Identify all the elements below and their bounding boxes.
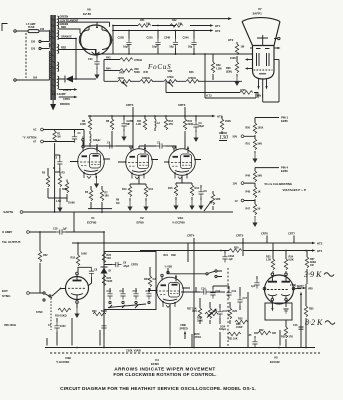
potentiometer VR3 <box>204 191 221 211</box>
sync switch dashes <box>50 295 52 330</box>
input terminal lo <box>33 140 75 143</box>
svg-text:CRT3: CRT3 <box>126 103 134 107</box>
CRT left pins <box>245 48 253 70</box>
potentiometer VR2 <box>118 72 131 87</box>
svg-text:C24B: C24B <box>164 37 170 40</box>
svg-text:EZ80: EZ80 <box>281 119 288 123</box>
svg-text:+CRT1: +CRT1 <box>63 88 72 92</box>
svg-text:56K: 56K <box>258 142 263 145</box>
tap 50V <box>233 135 256 139</box>
capacitor C13 <box>146 288 152 300</box>
diode D1 <box>101 267 112 274</box>
resistor R31 <box>228 332 241 340</box>
resistor R40 1W <box>230 42 245 62</box>
tap 230 <box>31 40 46 43</box>
svg-text:1V: 1V <box>235 199 238 203</box>
svg-text:240: 240 <box>40 28 45 31</box>
svg-text:R49: R49 <box>246 174 251 177</box>
bottom common rail <box>45 347 315 349</box>
svg-text:16µF: 16µF <box>152 46 158 49</box>
svg-text:AC: AC <box>33 129 37 132</box>
svg-text:C19: C19 <box>232 290 237 293</box>
V1 cathode network grounds <box>48 198 67 212</box>
tube V4 <box>148 268 190 330</box>
svg-text:.05µF: .05µF <box>123 265 130 268</box>
capacitor C11 <box>120 288 126 300</box>
resistor R47 <box>246 201 261 215</box>
svg-text:VR9: VR9 <box>168 70 173 73</box>
tap 10V <box>233 181 256 185</box>
svg-text:1.5K: 1.5K <box>56 200 61 203</box>
cap row C16/C19 beside C14 <box>210 286 220 299</box>
resistor R33 <box>281 320 293 348</box>
resistor R52 <box>38 232 48 293</box>
svg-text:VR3: VR3 <box>216 198 221 201</box>
CRT accel electrodes <box>256 48 270 50</box>
svg-text:17K: 17K <box>289 336 294 339</box>
svg-text:DI: DI <box>109 270 112 273</box>
svg-text:R12: R12 <box>149 188 154 191</box>
resistor R39 <box>211 54 221 80</box>
resistor R30b <box>236 323 243 329</box>
capacitor C16b <box>293 324 304 329</box>
svg-text:220K: 220K <box>188 123 194 126</box>
resistor R30 <box>235 318 248 324</box>
resistor R20 <box>92 310 107 316</box>
CRT5 drop <box>236 234 244 256</box>
svg-text:1K: 1K <box>258 190 261 193</box>
svg-text:V1: V1 <box>91 216 95 220</box>
svg-text:C16: C16 <box>293 324 298 327</box>
resistor 470K <box>240 89 253 94</box>
svg-text:C16: C16 <box>216 290 221 293</box>
resistor R49 <box>220 116 231 134</box>
6.3V filament wire with arrow <box>59 20 110 27</box>
capacitor C17 <box>237 292 247 310</box>
sync selector contacts <box>169 270 222 278</box>
svg-text:CRT4: CRT4 <box>187 234 195 238</box>
resistor R25 <box>208 302 217 324</box>
tube V5 ECC82 <box>263 273 304 304</box>
svg-text:6.8K: 6.8K <box>289 259 294 262</box>
svg-text:R10: R10 <box>122 188 127 191</box>
svg-text:100K: 100K <box>81 252 87 255</box>
svg-text:VR5: VR5 <box>308 287 313 290</box>
svg-text:R35: R35 <box>309 308 314 311</box>
svg-text:R30: R30 <box>238 318 243 321</box>
svg-text:C2/DI. V3A/B: C2/DI. V3A/B <box>126 350 141 353</box>
svg-text:HT2: HT2 <box>228 38 234 42</box>
svg-text:SYNC.: SYNC. <box>2 294 11 298</box>
svg-text:T.B. OUTPUT.: T.B. OUTPUT. <box>2 240 21 244</box>
V3B grid wire <box>52 288 66 296</box>
rectifier diode MR1 <box>59 76 96 83</box>
svg-text:100K: 100K <box>80 123 86 126</box>
resistor R44 <box>104 68 140 74</box>
ground V3B cathode <box>74 308 79 318</box>
svg-text:56K: 56K <box>258 174 263 177</box>
svg-text:R41: R41 <box>140 19 145 22</box>
capacitor C23B <box>121 116 133 141</box>
input terminal hi <box>33 128 84 148</box>
svg-text:R31 10K: R31 10K <box>228 338 238 341</box>
transformer primary winding <box>46 30 50 80</box>
rectifier cathode lead to rails <box>111 26 114 55</box>
capacitor C1 <box>72 130 81 143</box>
CRT funnel <box>242 18 280 46</box>
CRT7 label <box>288 232 295 243</box>
svg-text:C22B: C22B <box>118 37 124 40</box>
svg-text:X AMP/: X AMP/ <box>2 230 12 234</box>
svg-text:R27 15K: R27 15K <box>187 308 197 311</box>
secondary wire RED lower <box>59 47 96 53</box>
svg-text:R13: R13 <box>195 187 200 190</box>
capacitor C10 <box>107 288 113 300</box>
heater wire +CRT1 <box>59 88 78 92</box>
svg-text:220: 220 <box>31 48 36 51</box>
wiper arrow fine speed <box>184 331 186 339</box>
svg-text:R51: R51 <box>246 142 251 145</box>
svg-text:R24: R24 <box>144 278 149 281</box>
resistor R46 <box>186 71 199 83</box>
svg-text:RED: RED <box>61 26 66 29</box>
svg-text:R19 10KΩ: R19 10KΩ <box>55 315 67 318</box>
resistor R1 <box>53 130 61 156</box>
potentiometer VR4 <box>192 298 202 324</box>
svg-text:C10: C10 <box>107 290 112 293</box>
potentiometer VR9 <box>164 70 177 86</box>
ground chain1 <box>252 151 257 163</box>
svg-text:V2: V2 <box>140 216 144 220</box>
resistor R36 <box>304 284 314 348</box>
capacitor C14 <box>183 288 225 295</box>
voltage note 130 <box>219 133 228 141</box>
EXT SYNC input <box>2 289 11 298</box>
svg-text:1000: 1000 <box>60 325 66 328</box>
svg-text:47KΩ: 47KΩ <box>167 76 173 79</box>
wire to CRT cathode <box>166 81 258 98</box>
grid wire V1 <box>55 155 60 212</box>
svg-text:R46: R46 <box>189 71 194 74</box>
svg-text:RED: RED <box>61 47 66 50</box>
resistor R11 <box>136 116 147 130</box>
resistor R8 <box>106 116 114 146</box>
resistor R19 <box>55 308 71 317</box>
svg-text:ARROWS INDICATE WIPER MOVEMENT: ARROWS INDICATE WIPER MOVEMENT <box>114 367 215 372</box>
capacitor C18 <box>53 228 104 243</box>
V2 cathode resistors <box>130 175 146 186</box>
svg-text:101K: 101K <box>258 126 264 129</box>
H.T.2 mid rail <box>88 115 223 119</box>
capacitor C2 <box>54 155 62 172</box>
CRT screen grid bar <box>257 35 268 46</box>
resistor R12 <box>143 186 153 211</box>
svg-text:104W: 104W <box>236 326 243 329</box>
svg-text:CRT3: CRT3 <box>178 103 186 107</box>
svg-text:EF80: EF80 <box>137 221 145 225</box>
svg-text:CRT5: CRT5 <box>236 234 244 238</box>
svg-text:R43: R43 <box>106 57 111 60</box>
resistor R35 <box>266 243 275 273</box>
capacitor C24A <box>183 31 197 55</box>
resistor R29 <box>229 246 242 252</box>
wire risers mid cluster <box>181 286 248 348</box>
resistor R18 <box>71 243 92 272</box>
svg-text:GAIN: GAIN <box>68 201 75 205</box>
svg-text:½ ECF80: ½ ECF80 <box>172 221 185 225</box>
svg-text:C12: C12 <box>133 290 138 293</box>
tap 220 <box>31 47 46 50</box>
coupling C4 <box>96 142 133 150</box>
tap 1V <box>235 199 256 203</box>
svg-text:AT: AT <box>33 141 37 144</box>
coil L1 <box>82 131 100 147</box>
svg-text:10KΩ: 10KΩ <box>118 77 124 80</box>
svg-text:200: 200 <box>33 77 38 80</box>
capacitor C12 <box>133 288 139 300</box>
svg-text:C18: C18 <box>53 228 58 231</box>
transformer core <box>51 15 56 100</box>
H.T.1 bottom rail <box>140 249 323 253</box>
CRT6 label <box>261 232 268 243</box>
svg-text:50µ: 50µ <box>170 46 175 49</box>
svg-text:R29: R29 <box>234 246 239 249</box>
svg-text:.1µF: .1µF <box>62 228 67 231</box>
svg-text:H.T.2: H.T.2 <box>206 95 212 98</box>
resistor R42 <box>170 19 183 27</box>
secondary wire ORANGE <box>59 36 76 79</box>
svg-text:180µH: 180µH <box>93 139 100 142</box>
socket box SO? around V5 cathodes <box>265 301 292 320</box>
svg-text:CIRCUIT DIAGRAM FOR THE HE: CIRCUIT DIAGRAM FOR THE HEATHKIT SERVICE… <box>60 386 256 391</box>
fuse F1 <box>24 28 46 33</box>
tube V8 EZ80 <box>79 8 112 56</box>
svg-text:3·9 K: 3·9 K <box>303 270 322 279</box>
dashed interlock line <box>25 33 27 78</box>
svg-text:.1µF: .1µF <box>228 258 233 261</box>
terminal <box>27 231 56 234</box>
resistor R14 <box>164 116 173 130</box>
corner registration mark <box>2 24 8 32</box>
potentiometer VR7 with diagonal wiper <box>187 308 218 323</box>
resistor R49 <box>246 168 263 182</box>
svg-text:CRT9: CRT9 <box>63 97 70 101</box>
capacitor C9 <box>104 262 138 268</box>
resistor R22 <box>102 252 111 263</box>
svg-text:C17: C17 <box>243 297 248 300</box>
resistor R37 <box>305 250 316 284</box>
switch S2 contacts <box>108 301 150 308</box>
svg-text:1.2K: 1.2K <box>136 123 141 126</box>
chassis dashed line <box>50 352 320 354</box>
H.T.2 bottom rail <box>72 241 323 245</box>
CRT return loop <box>263 60 279 103</box>
svg-text:FUSE: FUSE <box>28 26 35 29</box>
svg-text:EXT: EXT <box>2 289 8 293</box>
svg-text:CRT7: CRT7 <box>288 232 295 236</box>
resistor R41 <box>138 19 151 27</box>
svg-text:R32: R32 <box>259 329 264 332</box>
terminal ext sync <box>27 292 42 295</box>
svg-text:HT1: HT1 <box>215 24 221 28</box>
resistor R13 <box>189 185 199 210</box>
svg-text:GREEN: GREEN <box>60 15 69 18</box>
svg-text:½ ECF8O: ½ ECF8O <box>56 360 70 364</box>
calibrator chain 1 top wire <box>255 117 279 119</box>
ground V1 cathode <box>94 176 99 188</box>
svg-text:EF8O: EF8O <box>151 362 160 366</box>
capacitor C15 <box>217 304 227 324</box>
svg-text:HT1: HT1 <box>317 249 323 253</box>
potentiometer VR5 <box>290 283 313 290</box>
ground rail <box>96 53 253 54</box>
H.T.2 rail <box>113 29 221 33</box>
resistor R15 <box>168 185 179 210</box>
svg-text:1½W: 1½W <box>290 283 296 287</box>
switch shaft dashed link <box>227 268 229 346</box>
svg-text:500K: 500K <box>101 310 107 313</box>
capacitor C22A <box>147 31 161 55</box>
svg-text:BROWN: BROWN <box>60 103 70 106</box>
resistor R43 <box>104 57 142 82</box>
potentiometer R4 gain <box>62 180 75 205</box>
svg-text:47K: 47K <box>169 123 174 126</box>
svg-text:'Y' ATTEN: 'Y' ATTEN <box>23 135 37 139</box>
CRT4 drop <box>187 234 195 349</box>
CRT right pins <box>274 37 281 59</box>
svg-text:R48: R48 <box>246 190 251 193</box>
secondary wire GREEN <box>59 15 232 20</box>
resistor R26 <box>228 302 237 324</box>
svg-text:R20: R20 <box>92 310 97 313</box>
earth terminal <box>4 210 234 232</box>
svg-text:R45: R45 <box>144 71 149 74</box>
svg-text:47OO: 47OO <box>195 336 202 339</box>
CRT3 drop left <box>126 103 134 147</box>
CRT cathode feed wire <box>205 93 256 99</box>
capacitor C3 <box>193 116 204 142</box>
svg-text:EZ 80: EZ 80 <box>83 12 91 16</box>
transformer ground <box>50 100 56 111</box>
svg-text:R36: R36 <box>281 336 286 339</box>
svg-text:50 c/s CALIBRATING: 50 c/s CALIBRATING <box>265 182 293 186</box>
svg-text:MF: MF <box>127 123 131 126</box>
svg-text:100KΩ: 100KΩ <box>142 77 150 80</box>
CRT deflection plates <box>257 53 270 66</box>
svg-text:6.3, 0.6AMP: 6.3, 0.6AMP <box>52 93 66 96</box>
svg-text:R26: R26 <box>233 310 238 313</box>
svg-text:ECF80: ECF80 <box>87 221 97 225</box>
svg-text:50V: 50V <box>233 135 238 139</box>
heater wire CRT9 <box>59 96 78 101</box>
capacitor C21 <box>101 314 106 336</box>
vertical feed to CRT bottom <box>204 54 206 98</box>
CRT bottom pins <box>257 79 267 102</box>
bottom rail drops <box>47 318 280 346</box>
handwritten 8.2K <box>305 318 335 327</box>
svg-text:C14: C14 <box>201 288 206 291</box>
capacitor C22B <box>118 31 132 55</box>
svg-text:500K: 500K <box>134 71 140 74</box>
svg-text:1M: 1M <box>116 202 119 205</box>
svg-text:10V: 10V <box>233 181 238 185</box>
resistor R24 <box>144 267 157 290</box>
capacitor C16 <box>248 334 258 348</box>
calibrator chain 2 top wire <box>255 167 279 169</box>
svg-text:VR2: VR2 <box>119 72 124 75</box>
resistor R48 <box>246 183 261 198</box>
CRT dashed electrode <box>254 69 273 71</box>
handwritten 3.9K <box>303 270 334 279</box>
tube V1 ECF80 <box>70 139 110 179</box>
svg-text:1M2: 1M2 <box>171 254 176 257</box>
svg-text:230: 230 <box>31 41 36 44</box>
ground chain2 <box>252 216 257 227</box>
svg-text:R44: R44 <box>106 68 111 71</box>
svg-text:1.2M: 1.2M <box>216 67 221 70</box>
resistor R16 <box>183 116 193 149</box>
timebase box <box>104 252 156 310</box>
tube V2 EF80 <box>118 144 158 179</box>
svg-text:VR6 10KΩ: VR6 10KΩ <box>4 324 16 327</box>
svg-text:R47: R47 <box>246 207 251 210</box>
resistor R38 <box>226 62 239 73</box>
svg-text:R42: R42 <box>172 19 177 22</box>
resistor R51 <box>246 136 263 149</box>
svg-text:½ V3B: ½ V3B <box>165 264 173 268</box>
sync switch S1 <box>36 292 52 314</box>
tube V3A <box>164 144 201 179</box>
svg-text:470KΩ: 470KΩ <box>134 59 142 62</box>
coupling C5 <box>139 142 176 150</box>
svg-text:PIN 1: PIN 1 <box>257 95 264 98</box>
svg-text:1.5K: 1.5K <box>266 259 271 262</box>
plug prong top <box>14 30 24 32</box>
focus divider wire <box>104 80 242 82</box>
svg-text:V3A: V3A <box>178 216 185 220</box>
svg-text:R21: R21 <box>164 254 169 257</box>
transformer secondary windings <box>58 16 59 89</box>
svg-text:R50: R50 <box>246 126 251 129</box>
CRT3 drop right <box>178 103 186 117</box>
svg-text:3AFP1: 3AFP1 <box>253 11 263 15</box>
svg-text:180: 180 <box>105 195 110 198</box>
capacitor C20 <box>88 54 100 79</box>
svg-text:1µF: 1µF <box>251 285 256 288</box>
resistor R50 <box>246 118 264 134</box>
svg-text:CRT6: CRT6 <box>261 232 268 236</box>
CRT gun marks <box>259 73 266 75</box>
svg-text:1M: 1M <box>57 136 60 139</box>
plug prong bottom <box>14 77 46 82</box>
capacitor C8 <box>88 267 98 286</box>
svg-text:8·2 K: 8·2 K <box>305 318 323 327</box>
svg-text:(33K): (33K) <box>226 70 232 73</box>
resistor R45 <box>140 71 153 83</box>
ground below R38 <box>234 74 239 86</box>
timebase main wire <box>103 243 105 348</box>
svg-text:R15: R15 <box>168 187 173 190</box>
wire left of VR5 <box>300 292 302 348</box>
svg-text:30µ: 30µ <box>188 46 193 49</box>
resistor R6 <box>80 116 92 130</box>
svg-text:SYNC: SYNC <box>36 311 43 314</box>
svg-text:350K: 350K <box>197 320 203 323</box>
svg-text:HT2: HT2 <box>215 29 221 33</box>
resistor R5 <box>85 186 93 209</box>
svg-text:HT2: HT2 <box>317 241 323 245</box>
resistor R10 <box>122 186 133 211</box>
